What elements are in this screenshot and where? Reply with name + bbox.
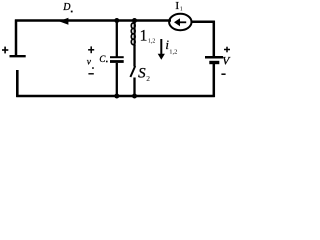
switch S2 blade: [130, 66, 135, 77]
capacitor voltage minus: [88, 73, 93, 75]
node top capacitor junction: [114, 18, 119, 23]
wire left vertical lower: [16, 70, 19, 97]
svg-text:S: S: [138, 65, 146, 81]
wire right vertical lower: [213, 64, 216, 97]
wire capacitor branch upper: [116, 21, 118, 57]
capacitor voltage plus: [88, 46, 94, 53]
current source I1: [169, 0, 191, 30]
switch S2 label: [138, 65, 150, 83]
current label i12: [165, 37, 177, 55]
capacitor C plates: [110, 57, 124, 61]
wire inductor branch top stub: [133, 21, 135, 24]
svg-text:2: 2: [146, 74, 150, 83]
wire inductor branch middle: [133, 45, 135, 67]
node bottom inductor junction: [132, 94, 137, 99]
wire left vertical upper: [15, 20, 18, 56]
capacitor voltage label v: [87, 58, 94, 69]
battery V right: [205, 47, 231, 74]
svg-text:1,2: 1,2: [148, 38, 155, 44]
wire right vertical upper: [213, 21, 216, 57]
svg-text:v: v: [87, 58, 92, 68]
wire top left segment: [15, 19, 171, 22]
inductor L12 coil: [131, 21, 135, 46]
battery (left source) plate: [10, 55, 26, 57]
svg-text:1: 1: [180, 6, 183, 12]
diode D1 arrow: [59, 2, 73, 25]
inductor L12 label: [140, 27, 156, 44]
current arrow i12: [158, 39, 165, 60]
wire switch branch lower: [133, 78, 135, 97]
wire top right segment: [191, 21, 215, 24]
svg-text:C: C: [99, 54, 106, 64]
node bottom capacitor junction: [114, 94, 119, 99]
svg-text:I: I: [175, 0, 179, 12]
svg-text:1,2: 1,2: [169, 48, 177, 55]
node top inductor junction: [132, 18, 137, 23]
wire bottom: [16, 95, 215, 98]
battery (left source) plus: [2, 47, 8, 54]
svg-text:D: D: [62, 2, 71, 13]
capacitor C label: [99, 54, 107, 64]
svg-text:V: V: [222, 55, 231, 67]
svg-text:1: 1: [140, 27, 148, 44]
wire capacitor branch lower: [116, 63, 118, 96]
